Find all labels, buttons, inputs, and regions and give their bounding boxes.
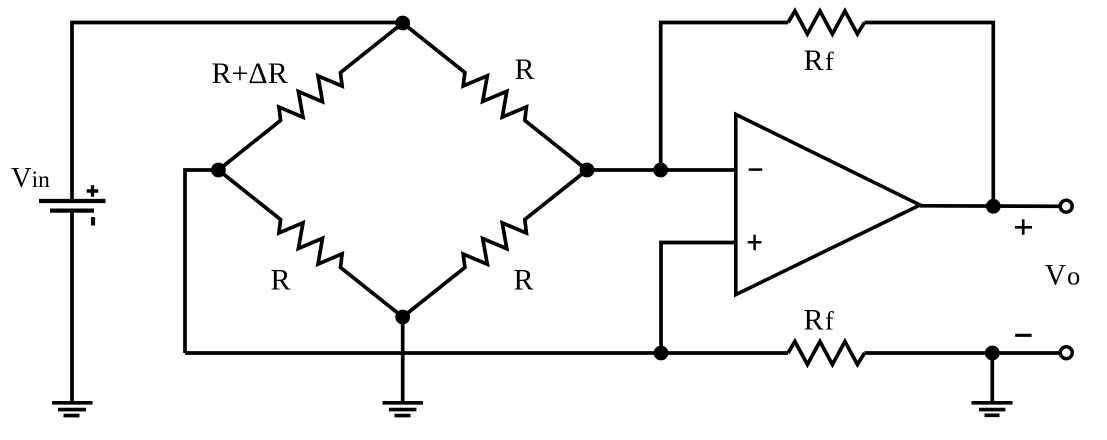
terminal Vo minus (open circle) [1060, 347, 1072, 359]
svg-text:R: R [514, 264, 534, 297]
node bridge top [395, 16, 410, 31]
node bridge bottom [395, 310, 410, 325]
node bottom rail junction [654, 346, 669, 361]
op-amp U1 triangle [736, 114, 920, 294]
svg-text:R: R [271, 264, 291, 297]
wire battery to ground [70, 211, 74, 403]
svg-text:R+ΔR: R+ΔR [212, 57, 288, 90]
wire output minus node to ground [990, 353, 994, 403]
battery Vin bottom plate (-) [50, 209, 94, 213]
resistor R+dR (bridge arm left node to top node) [218, 23, 402, 170]
label output plus sign [1015, 219, 1032, 234]
resistor R (bridge arm top node to right node) [403, 23, 587, 170]
wire Rf top to output node [865, 23, 994, 206]
ground (left, below Vin) [52, 403, 93, 416]
wire bridge bottom node to ground [401, 317, 405, 403]
ground (bridge bottom) [383, 403, 424, 416]
node output bottom [985, 346, 1000, 361]
svg-text:R: R [515, 53, 535, 86]
battery minus sign [91, 217, 95, 226]
node output top [986, 199, 1001, 214]
node bridge right [580, 163, 595, 178]
wire op-amp plus input [661, 243, 736, 354]
ground (output minus) [972, 403, 1013, 416]
node bridge left [211, 163, 226, 178]
battery Vin top plate (+) [39, 199, 106, 203]
wire top rail from Vin to bridge top node [72, 23, 403, 202]
svg-text:Vin: Vin [11, 163, 50, 194]
wire op-amp output [920, 204, 1061, 208]
resistor Rf (bottom) [788, 342, 865, 365]
label output minus sign [1015, 334, 1031, 337]
node A feedback junction [653, 163, 668, 178]
terminal Vo plus (open circle) [1060, 200, 1072, 212]
resistor R (bridge arm left node to bottom node) [218, 170, 402, 317]
resistor Rf (top feedback) [788, 11, 865, 34]
resistor R (bridge arm bottom node to right node) [403, 170, 587, 317]
wire Rf bottom to output minus terminal [865, 351, 1061, 355]
battery plus sign [87, 185, 98, 196]
op-amp plus pin label [748, 235, 762, 251]
wire right node to op-amp inverting input [587, 168, 736, 172]
op-amp minus pin label [749, 168, 763, 171]
svg-text:Vo: Vo [1045, 260, 1081, 292]
wire feedback up from node A [661, 23, 788, 171]
wire left node to bottom rail [185, 170, 218, 353]
wire bottom rail (left segment to Rf) [185, 351, 788, 355]
svg-text:Rf: Rf [804, 304, 835, 337]
svg-text:Rf: Rf [804, 44, 835, 77]
